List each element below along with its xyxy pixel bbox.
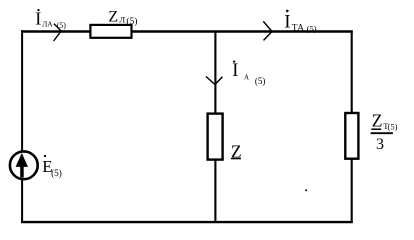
current arrow I_TA(5): open arrowhead on top wire xyxy=(263,21,272,40)
label Z_T(5)/3 fraction xyxy=(371,111,398,153)
svg-text:(5): (5) xyxy=(255,76,266,86)
wire: right side xyxy=(351,32,353,223)
resistor Z_T(5)/3 box xyxy=(345,113,358,159)
svg-text:(5): (5) xyxy=(51,168,62,178)
label Z underlined xyxy=(231,142,242,162)
svg-text:3: 3 xyxy=(376,136,384,153)
label I_TA(5) xyxy=(284,10,317,34)
label I_A(5) xyxy=(232,61,265,87)
wire: middle branch xyxy=(214,32,216,223)
svg-text:(5): (5) xyxy=(126,16,137,27)
svg-text:ЛА: ЛА xyxy=(42,19,53,28)
EMF source E(5): circle with up arrow xyxy=(10,151,38,179)
wire: top side xyxy=(21,30,353,32)
svg-text:(5): (5) xyxy=(307,24,317,34)
svg-text:Z: Z xyxy=(108,9,118,26)
label I_LA(5) xyxy=(35,8,66,29)
svg-text:ТА: ТА xyxy=(292,23,304,33)
label Z_L(5) xyxy=(108,9,137,28)
svg-text:I: I xyxy=(232,61,238,81)
svg-text:Л: Л xyxy=(119,15,125,25)
stray period mark xyxy=(305,189,307,191)
resistor Z_L(5) box xyxy=(90,25,131,38)
current arrow I_A(5): open arrowhead on middle branch xyxy=(206,77,222,85)
wire: left side xyxy=(21,30,23,223)
svg-text:(5): (5) xyxy=(57,21,67,30)
svg-text:I: I xyxy=(35,8,41,28)
svg-text:Z: Z xyxy=(372,111,383,131)
svg-text:А: А xyxy=(244,74,249,82)
svg-text:(5): (5) xyxy=(388,122,398,132)
svg-text:I: I xyxy=(284,12,290,33)
resistor Z (middle) box xyxy=(208,114,223,160)
current arrow I_LA(5): open arrowhead on top wire xyxy=(54,24,62,41)
label E(5) xyxy=(42,155,62,178)
wire: bottom side xyxy=(21,221,353,223)
